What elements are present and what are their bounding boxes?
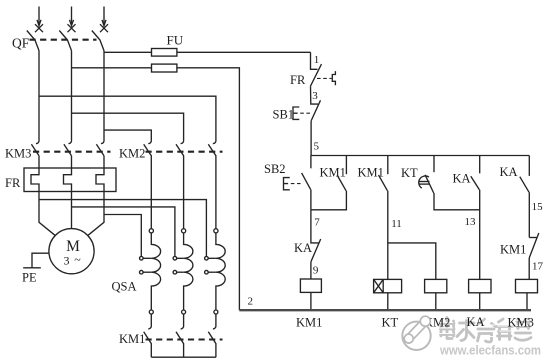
svg-text:1: 1 <box>314 54 320 66</box>
contactor KM3 linkage dashed <box>33 151 111 153</box>
autotransformer QSA winding 2 <box>173 229 193 314</box>
wire FR to SB1 <box>311 86 319 104</box>
wire KA to coil KM1 <box>310 262 312 279</box>
svg-text:PE: PE <box>22 271 37 285</box>
svg-text:FR: FR <box>290 73 306 87</box>
wire phase B (QF to KM3) <box>71 51 73 140</box>
wire motor lead B <box>71 192 73 229</box>
button SB1 (NC) <box>293 100 321 121</box>
svg-text:5: 5 <box>314 141 320 153</box>
supply line L3 arrow <box>100 7 108 33</box>
svg-text:SB1: SB1 <box>273 107 295 121</box>
svg-text:FR: FR <box>5 176 21 190</box>
contactor KM1 star pole 3 <box>208 314 216 357</box>
svg-text:2: 2 <box>248 295 254 307</box>
wire feeder phase B to KM2 pole 2 <box>72 113 184 140</box>
svg-text:7: 7 <box>314 216 320 228</box>
supply line L1 arrow <box>35 7 43 33</box>
relay contact KA (NC) <box>311 210 321 262</box>
coil KM2 <box>425 279 447 292</box>
wire feeder phase C to KM2 pole 1 <box>104 130 151 140</box>
thermal relay FR heater phase B <box>64 156 72 192</box>
thermal contact FR (NC) <box>311 64 336 86</box>
wire control rail <box>311 155 529 157</box>
svg-text:KM3: KM3 <box>508 316 534 330</box>
svg-text:www.elecfans.com: www.elecfans.com <box>439 343 541 358</box>
button SB2 (NO) <box>284 156 311 210</box>
svg-text:KA: KA <box>500 165 518 179</box>
thermal relay FR heater phase C <box>96 156 104 192</box>
svg-text:KM1: KM1 <box>296 316 322 330</box>
wire control drop <box>311 52 318 69</box>
contactor KM3 pole 3 <box>96 140 104 156</box>
coil KA <box>469 279 491 292</box>
thermal relay FR heater phase A <box>31 156 39 192</box>
timer contact KT (NO delayed) <box>419 156 480 210</box>
svg-text:QF: QF <box>12 36 30 51</box>
watermark logo <box>402 316 430 350</box>
wire star point bar <box>151 356 216 358</box>
wire tap line A to QSA3 <box>39 200 206 257</box>
relay contact KA selfhold (NO) <box>471 156 480 280</box>
wire phase C (QF to KM3) <box>103 51 105 140</box>
wire motor lead A <box>39 192 56 236</box>
svg-text:KA: KA <box>453 172 471 186</box>
autotransformer QSA winding 3 <box>205 229 226 314</box>
relay contact KA branch5 (NO) <box>520 156 530 238</box>
wire SB1 to rail <box>310 121 312 156</box>
wire coil KM1 to rail <box>310 292 312 310</box>
svg-text:KA: KA <box>294 241 312 255</box>
svg-text:~: ~ <box>74 253 81 267</box>
svg-text:QSA: QSA <box>112 280 137 294</box>
wire phase A (QF to KM3) <box>38 51 40 140</box>
svg-text:17: 17 <box>532 261 544 273</box>
coil KT (with cross box) <box>374 279 402 292</box>
svg-text:FU: FU <box>167 33 184 48</box>
coil KM3 <box>516 279 538 292</box>
svg-text:KM1: KM1 <box>320 165 346 179</box>
wire coil KM2 to rail <box>435 293 437 310</box>
svg-text:KA: KA <box>467 315 485 329</box>
contactor KM2 pole 1 <box>144 140 152 229</box>
svg-text:9: 9 <box>313 264 319 276</box>
svg-text:KM2: KM2 <box>119 147 145 161</box>
svg-text:11: 11 <box>391 218 402 230</box>
contactor KM1 star pole 2 <box>176 314 184 357</box>
svg-text:15: 15 <box>532 201 544 213</box>
wire tap line C to QSA1 <box>104 215 141 257</box>
svg-text:3: 3 <box>64 254 70 268</box>
fuse FU1 <box>152 49 177 57</box>
fuse FU2 <box>152 64 177 72</box>
svg-text:KM1: KM1 <box>119 332 145 346</box>
breaker QF pole 3 <box>92 31 104 51</box>
svg-text:13: 13 <box>465 216 477 228</box>
svg-text:KT: KT <box>382 316 399 330</box>
supply line L2 arrow <box>68 7 76 33</box>
autotransformer QSA winding 1 <box>140 229 161 314</box>
breaker QF linkage dashed <box>30 39 97 41</box>
watermark CJK text <box>441 318 532 343</box>
coil KM1 <box>300 279 321 292</box>
wire coil KM3 to rail <box>526 293 528 310</box>
contactor KM2 pole 3 <box>208 140 216 229</box>
svg-text:KM1: KM1 <box>500 243 526 257</box>
contactor KM3 pole 1 <box>31 140 39 156</box>
contactor KM2 pole 2 <box>176 140 184 229</box>
wire branch to coil KM2 <box>388 243 436 280</box>
thermal relay FR box <box>24 168 116 192</box>
wire feeder phase A to KM2 pole 3 <box>39 96 216 140</box>
wire coil KT to rail <box>387 293 389 310</box>
ground PE <box>22 253 49 284</box>
wire coil KA to rail <box>479 293 481 310</box>
wire control line 1 <box>104 51 311 53</box>
motor M1 <box>49 229 94 274</box>
svg-text:SB2: SB2 <box>264 162 286 176</box>
contactor KM3 pole 2 <box>64 140 72 156</box>
contactor KM2 linkage dashed <box>146 151 223 153</box>
wire bottom rail <box>239 309 531 311</box>
contactor KM1 star linkage dashed <box>146 338 223 340</box>
wire control line 2 <box>72 68 240 310</box>
contactor KM1 star pole 1 <box>144 314 152 357</box>
svg-text:KT: KT <box>401 166 418 180</box>
breaker QF pole 2 <box>59 31 71 51</box>
svg-text:3: 3 <box>312 90 318 102</box>
contact KM1 interlock (NC) <box>529 233 539 258</box>
breaker QF pole 1 <box>27 31 39 51</box>
wire motor lead C <box>87 192 104 236</box>
wire tap line B to QSA2 <box>72 207 175 257</box>
wire KM1 NC to coil KM3 <box>528 258 530 279</box>
contact KM1 selfhold (NO) <box>311 156 347 210</box>
contact KM1 branch2 (NO) <box>379 156 388 280</box>
svg-text:KM3: KM3 <box>5 147 31 161</box>
